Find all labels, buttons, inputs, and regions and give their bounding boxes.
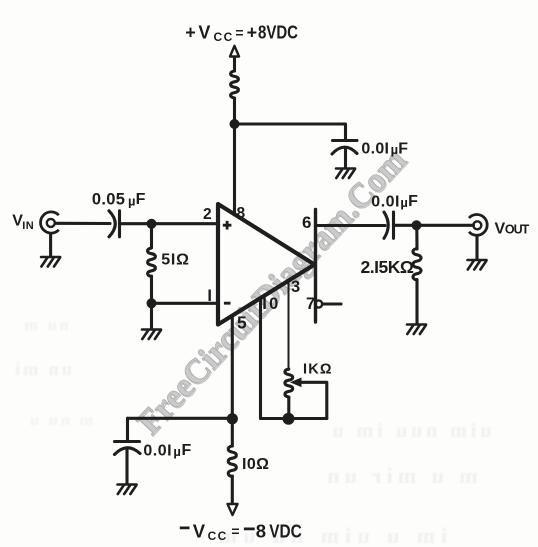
svg-text:µ: µ [391, 142, 399, 157]
svg-text:0.0I: 0.0I [143, 443, 172, 460]
svg-text:8: 8 [237, 205, 246, 222]
svg-text:IKΩ: IKΩ [303, 362, 333, 378]
svg-text:F: F [398, 140, 408, 157]
svg-text:I0: I0 [262, 295, 280, 313]
svg-text:2: 2 [203, 206, 212, 223]
svg-text:=: = [235, 25, 243, 41]
svg-text:0.0I: 0.0I [361, 140, 389, 157]
svg-text:un mi: un mi [12, 359, 72, 379]
svg-text:µ: µ [173, 444, 181, 459]
svg-text:nu m: nu m [21, 317, 68, 334]
svg-text:6: 6 [302, 213, 311, 232]
svg-text:2.I5KΩ: 2.I5KΩ [361, 257, 414, 277]
svg-text:VDC: VDC [269, 521, 302, 542]
svg-text:m nu u: m nu u [27, 412, 93, 429]
svg-text:=: = [231, 523, 239, 539]
svg-text:uim nuu im u: uim nuu im u [328, 420, 491, 442]
svg-text:0.0I: 0.0I [371, 193, 400, 210]
svg-text:µ: µ [400, 195, 408, 210]
svg-text:+V: +V [185, 23, 213, 43]
svg-text:V: V [193, 520, 206, 541]
svg-text:8: 8 [256, 521, 266, 542]
svg-text:µ: µ [128, 193, 136, 208]
svg-text:F: F [182, 442, 192, 459]
svg-text:I0Ω: I0Ω [242, 456, 269, 473]
svg-text:m u mir un: m u mir un [322, 463, 477, 488]
svg-text:3: 3 [291, 278, 300, 296]
svg-text:+: + [247, 23, 258, 43]
svg-text:OUT: OUT [505, 222, 530, 236]
svg-text:5: 5 [237, 313, 247, 333]
svg-text:CC: CC [214, 30, 234, 44]
svg-text:7: 7 [306, 295, 315, 313]
svg-text:V: V [495, 220, 506, 237]
svg-text:8VDC: 8VDC [258, 23, 298, 43]
svg-text:5IΩ: 5IΩ [161, 252, 190, 269]
svg-text:I: I [207, 287, 212, 305]
svg-text:F: F [136, 191, 146, 208]
svg-text:0.05: 0.05 [92, 191, 125, 209]
svg-text:F: F [408, 193, 418, 210]
svg-text:IN: IN [22, 220, 34, 232]
svg-text:CC: CC [208, 529, 228, 543]
svg-text:im u uim nu um: im u uim nu um [213, 523, 447, 547]
